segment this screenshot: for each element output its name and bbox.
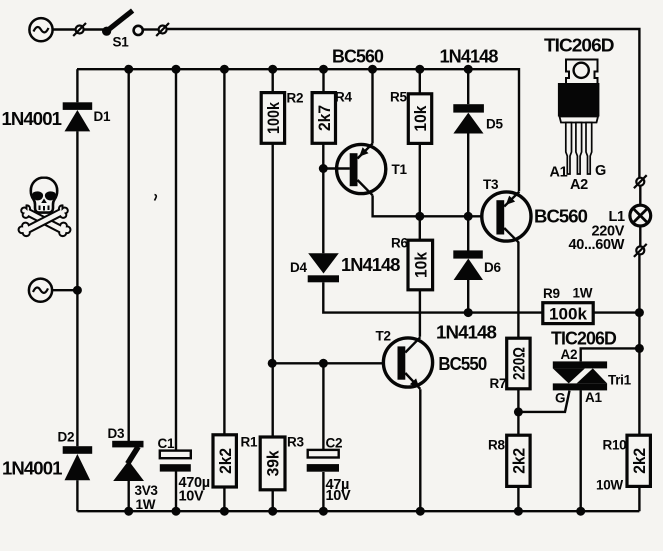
- wire D1 to AC junction to D2: [76, 131, 78, 446]
- node bus/R8 bottom: [514, 507, 523, 516]
- node R5 R6 T1 collector wire: [415, 212, 424, 221]
- wire D2 to bottom bus corner: [76, 480, 78, 511]
- svg-text:D2: D2: [58, 430, 75, 445]
- node bus/C1 bottom: [172, 507, 181, 516]
- svg-text:100k: 100k: [264, 102, 283, 134]
- svg-text:R3: R3: [287, 435, 304, 450]
- wire R5 bottom through node to R6: [419, 144, 421, 241]
- node AC2 junction: [73, 286, 82, 295]
- svg-text:TIC206D: TIC206D: [544, 36, 614, 56]
- wire switch circle to terminal2: [143, 28, 158, 30]
- wire lamp terminal top: [639, 186, 641, 205]
- svg-text:G: G: [555, 391, 565, 406]
- AC source top: [29, 18, 52, 41]
- wire top from switch to right corner: [167, 29, 639, 177]
- svg-text:2k2: 2k2: [216, 448, 235, 474]
- svg-text:R4: R4: [335, 90, 352, 105]
- resistor R10: [627, 435, 650, 486]
- transistor T3: [482, 192, 531, 243]
- wire C1 column top: [175, 69, 177, 450]
- svg-text:C1: C1: [158, 436, 175, 451]
- pin A2 leg: [576, 123, 582, 175]
- node T2 base / C2: [319, 359, 328, 368]
- diode D4: [308, 253, 339, 282]
- svg-text:3V3: 3V3: [135, 483, 159, 498]
- wire AC2 to junction: [53, 289, 78, 291]
- svg-text:10W: 10W: [596, 478, 623, 493]
- wire R5 top lead: [419, 69, 421, 94]
- svg-text:R9: R9: [543, 286, 560, 301]
- resistor R3: [260, 437, 285, 490]
- wire R3 bottom: [272, 490, 274, 511]
- svg-text:10V: 10V: [326, 488, 352, 504]
- svg-text:C2: C2: [326, 436, 343, 451]
- svg-text:R5: R5: [390, 90, 407, 105]
- diode D6: [453, 250, 483, 280]
- wire D5 bottom to T3 base node to D6: [467, 133, 469, 250]
- svg-text:G: G: [595, 163, 606, 179]
- node bus2/R1: [220, 65, 229, 74]
- wire R2 top lead: [272, 69, 274, 92]
- terminal mains top second: [156, 23, 169, 36]
- wire R1 bottom: [223, 487, 225, 511]
- resistor R1: [213, 435, 236, 487]
- svg-text:BC560: BC560: [332, 47, 384, 67]
- lamp terminal upper: [634, 175, 647, 188]
- wire AC1 to terminal: [53, 28, 75, 30]
- wire left vertical x77 D1 branch: [76, 69, 78, 102]
- wire T1 base: [323, 167, 350, 169]
- svg-text:R1: R1: [241, 435, 258, 450]
- wire R9 right lead: [593, 311, 639, 313]
- wire D3 bottom: [127, 481, 129, 511]
- lamp terminal lower: [634, 244, 647, 257]
- svg-text:1N4001: 1N4001: [2, 109, 62, 129]
- terminal mains top-left: [73, 23, 86, 36]
- svg-text:T3: T3: [483, 177, 499, 192]
- transistor T2: [383, 337, 432, 389]
- node bus2/T1: [368, 65, 377, 74]
- wire T1 collector to T3 base: [373, 195, 482, 216]
- svg-text:1N4148: 1N4148: [440, 47, 499, 67]
- svg-text:A1: A1: [585, 390, 602, 405]
- wire T2 emitter down: [419, 389, 421, 511]
- node bus/D3 bottom: [124, 507, 133, 516]
- svg-text:40...60W: 40...60W: [569, 237, 625, 253]
- svg-text:D4: D4: [290, 260, 307, 275]
- node R7 R8 gate: [514, 407, 523, 416]
- wire gate polyline: [518, 391, 569, 412]
- svg-text:D1: D1: [94, 109, 111, 124]
- wire triac A1 down: [580, 390, 582, 511]
- svg-text:A1: A1: [550, 165, 568, 181]
- wire C2 bottom: [322, 472, 324, 511]
- svg-text:A2: A2: [561, 347, 578, 362]
- svg-text:BC550: BC550: [438, 354, 487, 374]
- node bus2/R4: [319, 65, 328, 74]
- pin A1 leg: [566, 123, 572, 175]
- node bus/T2 emitter: [416, 507, 425, 516]
- wire R2 bottom to R3 top: [272, 144, 274, 437]
- node T1 base / R4: [319, 164, 328, 173]
- wire bus2 horizontal: [77, 69, 519, 191]
- wire D5 top lead: [467, 69, 469, 104]
- svg-text:D6: D6: [484, 260, 501, 275]
- resistor R5: [408, 94, 431, 144]
- diode D2: [63, 446, 92, 480]
- wire D3 column top: [127, 69, 129, 441]
- resistor R9: [543, 303, 593, 324]
- svg-text:D3: D3: [108, 426, 125, 441]
- node bus/triac A1: [576, 507, 585, 516]
- wire R4 bottom to T1 base node to D4: [322, 144, 324, 254]
- svg-text:1N4148: 1N4148: [436, 323, 497, 343]
- TO-220 package TIC206D: [558, 60, 600, 175]
- svg-text:S1: S1: [113, 35, 130, 50]
- wire R1 column top: [223, 69, 225, 435]
- svg-text:220Ω: 220Ω: [510, 347, 529, 380]
- svg-text:1W: 1W: [573, 286, 593, 301]
- wire R4 top lead: [322, 69, 324, 92]
- node bus/C2 bottom: [319, 507, 328, 516]
- capacitor C1: [160, 451, 191, 472]
- wire R8 bottom: [517, 486, 519, 511]
- node D5 D6 T3 base: [464, 212, 473, 221]
- zener D3: [112, 441, 144, 481]
- svg-text:100k: 100k: [549, 304, 588, 323]
- AC source bottom: [29, 279, 52, 302]
- resistor R6: [408, 240, 433, 290]
- wire D6 bottom to R9 net: [467, 280, 469, 313]
- svg-text:1N4148: 1N4148: [341, 255, 400, 275]
- resistor R4: [312, 93, 335, 144]
- node bus2/D5: [464, 65, 473, 74]
- node bus2/D3: [124, 65, 133, 74]
- node T2 base / R2R3 wire: [268, 359, 277, 368]
- lamp L1: [630, 205, 651, 226]
- wire C1 bottom: [175, 471, 177, 511]
- node triac A2 / right bus: [635, 344, 644, 353]
- svg-text:R6: R6: [391, 236, 408, 251]
- capacitor C2: [307, 450, 339, 472]
- node bus2/C1: [172, 65, 181, 74]
- svg-text:1W: 1W: [136, 497, 156, 512]
- node bus/R1 bottom: [220, 507, 229, 516]
- svg-text:T2: T2: [376, 329, 391, 344]
- svg-text:39k: 39k: [264, 450, 283, 476]
- node bus/R3 bottom: [268, 507, 277, 516]
- bottom bus: [77, 510, 639, 512]
- svg-text:R2: R2: [287, 91, 304, 106]
- wire R7 bottom to R8 top: [517, 389, 519, 435]
- svg-text:R7: R7: [490, 376, 507, 391]
- resistor R7: [507, 338, 530, 389]
- skull and crossbones: [19, 178, 71, 237]
- wire triac A2 to right bus: [581, 348, 640, 361]
- resistor R2: [261, 93, 284, 144]
- svg-text:2k2: 2k2: [630, 448, 649, 474]
- svg-text:10V: 10V: [179, 489, 205, 505]
- wire C2 top lead: [322, 363, 324, 450]
- wire R6 bottom to T2 collector: [419, 290, 421, 337]
- triac Tri1: [553, 361, 607, 390]
- wire lamp to lower terminal: [639, 226, 641, 246]
- svg-text:2k2: 2k2: [510, 448, 529, 474]
- pin G leg: [586, 123, 592, 175]
- resistor R8: [507, 435, 530, 486]
- diode D1: [63, 102, 92, 131]
- svg-text:D5: D5: [486, 117, 503, 132]
- diode D5: [453, 104, 484, 133]
- svg-text:1N4001: 1N4001: [2, 459, 62, 479]
- svg-text:10k: 10k: [411, 105, 430, 131]
- svg-text:10k: 10k: [411, 252, 430, 278]
- svg-text:TIC206D: TIC206D: [551, 329, 617, 349]
- svg-text:BC560: BC560: [534, 207, 588, 227]
- wire D4 bottom corner to R9 net: [323, 282, 543, 312]
- switch S1: [102, 11, 143, 36]
- transistor T1: [337, 144, 386, 196]
- wire terminal1 to switch: [84, 28, 103, 30]
- svg-text:T1: T1: [392, 162, 408, 177]
- svg-text:2k7: 2k7: [315, 105, 334, 131]
- svg-text:A2: A2: [570, 177, 588, 193]
- wire lower terminal down right side: [638, 255, 640, 436]
- svg-text:Tri1: Tri1: [608, 373, 632, 388]
- svg-text:R10: R10: [603, 438, 627, 453]
- node bus2/R2: [268, 65, 277, 74]
- node R9 right / lamp bus: [635, 308, 644, 317]
- svg-text:R8: R8: [488, 438, 505, 453]
- node D6 / R9 net: [464, 308, 473, 317]
- wire T1 emitter column: [371, 69, 373, 143]
- wire T2 base: [272, 362, 382, 364]
- wire R10 bottom to bus: [638, 486, 640, 511]
- speck artifact: [155, 195, 157, 201]
- node bus2/R5: [415, 65, 424, 74]
- wire T3 collector to R7: [517, 242, 519, 339]
